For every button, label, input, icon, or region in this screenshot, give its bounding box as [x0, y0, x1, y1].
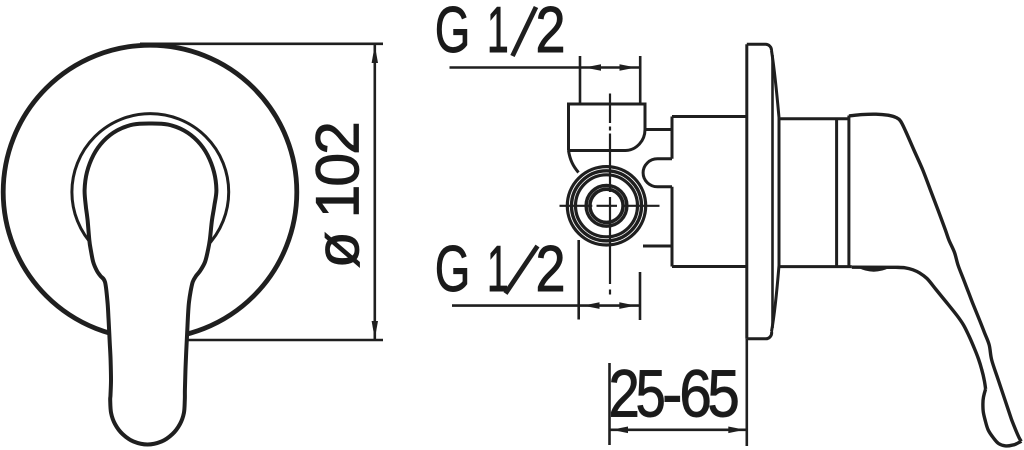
dim G1/2 top: right extension line	[639, 56, 642, 104]
side view: port bottom edge with fillet	[569, 130, 646, 151]
side view: top inlet port outline	[569, 104, 646, 151]
side view: port-to-body connector line	[645, 128, 672, 131]
svg-text:1: 1	[487, 0, 509, 67]
dim G1/2 lower: left arrowhead	[583, 302, 600, 309]
dim G1/2 lower: left extension line	[577, 240, 580, 320]
dim 25-65: left extension line	[608, 363, 611, 445]
side view: boss bottom tangent line	[643, 245, 672, 248]
side view: side port thread OD circle	[576, 175, 638, 237]
side view: flange top cone slant	[772, 51, 780, 118]
dim G1/2 lower: fraction slash	[506, 246, 538, 294]
svg-text:1: 1	[487, 233, 509, 306]
side view: flange face edge line	[771, 55, 774, 328]
dim ø102: top arrowhead	[372, 45, 378, 63]
front view: escutcheon outer circle	[3, 45, 297, 339]
side view: handle tip	[983, 389, 1021, 446]
svg-text:G: G	[435, 232, 470, 305]
dim 25-65: right arrowhead	[728, 427, 745, 434]
dim ø102: top extension line	[140, 42, 383, 45]
side view: retaining tab on body left	[643, 159, 672, 187]
svg-text:2: 2	[536, 0, 566, 66]
dim G1/2 top: leader and dimension line	[450, 66, 641, 69]
dim G1/2 top: left extension line	[579, 56, 582, 104]
side view: escutcheon flange left edge	[745, 44, 748, 339]
side view: flange bottom cone slant	[772, 266, 780, 332]
side view: flange bottom edge	[747, 332, 772, 339]
svg-text:5: 5	[636, 356, 666, 431]
dim 25-65: left arrowhead	[612, 427, 629, 434]
centerline: vertical port axis (dash-dot)	[609, 94, 611, 295]
dim G1/2 lower: right arrowhead	[619, 302, 636, 309]
dim G1/2 top: left arrowhead	[585, 64, 602, 71]
side view: main body rectangle	[672, 117, 746, 267]
side view: handle top and outer edge	[849, 114, 1021, 441]
dim G1/2 top: fraction slash	[513, 7, 537, 56]
dim ø102: bottom extension line	[186, 339, 383, 342]
side view: flange top edge	[747, 44, 772, 50]
side view: handle underside	[852, 267, 986, 389]
dim 25-65: dimension line	[610, 428, 747, 431]
dim G1/2 top: right arrowhead	[620, 64, 637, 71]
side view: handle set-screw bump	[858, 267, 891, 271]
side view: bonnet outline	[779, 118, 852, 267]
side view: chamfer from port down to side boss	[569, 151, 579, 173]
svg-text:5: 5	[707, 357, 739, 432]
svg-text:G: G	[435, 0, 470, 66]
dim 25-65: right extension line (flange edge extended)	[745, 339, 748, 446]
dim G1/2 lower: right extension line	[639, 272, 642, 320]
dim G1/2 lower: leader and dimension line	[452, 304, 640, 307]
front view: escutcheon inner circle	[72, 114, 229, 271]
dim ø102: bottom arrowhead	[372, 321, 378, 339]
svg-text:ø 102: ø 102	[304, 121, 372, 269]
side view: side port boss outer circle	[567, 167, 645, 245]
side view: side port bore outer circle	[586, 185, 627, 226]
side view: bonnet/hub joint lines	[835, 119, 838, 267]
front view: handle dome and lever outline	[85, 123, 217, 444]
dim ø102: vertical dimension line	[373, 45, 376, 339]
side view: side port bore inner circle	[590, 189, 623, 222]
side view: side port thread relief circle	[572, 171, 642, 241]
svg-text:2: 2	[536, 232, 566, 305]
centerline: horizontal side port axis (dash-dot)	[560, 205, 660, 207]
